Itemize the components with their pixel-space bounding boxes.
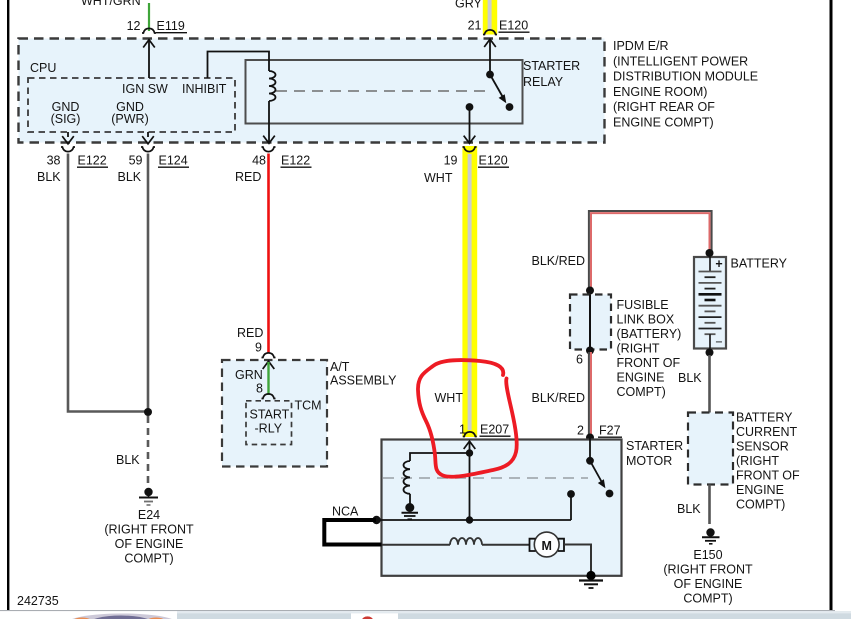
- svg-text:WHT: WHT: [435, 391, 464, 405]
- svg-text:INHIBIT: INHIBIT: [182, 82, 227, 96]
- connector cap E120 top: [483, 30, 497, 35]
- svg-text:GRN: GRN: [235, 368, 263, 382]
- svg-text:START: START: [250, 408, 290, 422]
- svg-text:DISTRIBUTION MODULE: DISTRIBUTION MODULE: [613, 70, 758, 84]
- junction dot fusible bottom: [586, 347, 594, 355]
- svg-text:TCM: TCM: [295, 399, 322, 413]
- svg-text:−: −: [715, 335, 722, 349]
- svg-text:IGN SW: IGN SW: [122, 82, 168, 96]
- ground E24: [144, 488, 152, 496]
- svg-text:ENGINE: ENGINE: [736, 483, 784, 497]
- junction dot: [466, 449, 473, 456]
- starter motor box: [382, 440, 622, 576]
- IPDM E/R box fill: [19, 39, 605, 143]
- wire WHT highlighted yellow pin19 to E207: [462, 146, 477, 437]
- svg-text:STARTER: STARTER: [523, 59, 580, 73]
- svg-text:M: M: [541, 539, 551, 553]
- blurred logo blob: [67, 614, 177, 619]
- NCA node dot: [372, 516, 380, 524]
- svg-text:BATTERY: BATTERY: [736, 411, 793, 425]
- wire relay coil to pin 48 arrow down: [268, 101, 270, 142]
- wire GRY highlighted yellow pin 21: [483, 0, 497, 35]
- connector cap pin48 E122 down: [262, 147, 276, 152]
- battery plates: [699, 257, 722, 349]
- wire BLK sensor to E150: [708, 485, 711, 525]
- red annotation loop: [418, 360, 517, 477]
- connector cap E207: [463, 432, 477, 437]
- junction dot battery bottom: [706, 349, 714, 357]
- wire INHIBIT to relay coil: [208, 52, 270, 79]
- TCM dashed box: [246, 401, 292, 445]
- wire to solenoid coil: [410, 453, 470, 461]
- svg-text:ASSEMBLY: ASSEMBLY: [330, 374, 397, 388]
- svg-text:SENSOR: SENSOR: [736, 440, 789, 454]
- NCA junction wire: [377, 519, 572, 521]
- svg-text:COMPT): COMPT): [617, 385, 666, 399]
- relay coil: [269, 71, 276, 101]
- relay internal mech dashed link: [276, 90, 487, 92]
- svg-text:NCA: NCA: [332, 505, 359, 519]
- junction dot F27: [586, 434, 594, 442]
- starter switch contact top: [586, 457, 594, 465]
- svg-text:E124: E124: [159, 154, 188, 168]
- starter switch output contact: [567, 490, 575, 498]
- svg-text:CURRENT: CURRENT: [736, 425, 797, 439]
- svg-text:(PWR): (PWR): [111, 112, 149, 126]
- junction dot fusible top: [586, 287, 594, 295]
- relay output contact: [466, 103, 474, 111]
- ground solenoid: [405, 503, 414, 512]
- svg-text:(INTELLIGENT POWER: (INTELLIGENT POWER: [613, 54, 748, 68]
- bottom sliver: thumbnails strip: [0, 611, 851, 619]
- IPDM E/R dashed border: [19, 39, 605, 143]
- A/T assembly box: [222, 360, 327, 467]
- wire pin 59 BLK: [142, 136, 154, 144]
- motor M: [534, 532, 559, 557]
- svg-text:COMPT): COMPT): [683, 592, 732, 606]
- relay switch blade with arrow: [490, 75, 503, 97]
- CPU dashed box: [28, 78, 235, 132]
- wire motor to ground: [564, 545, 591, 575]
- svg-text:OF ENGINE: OF ENGINE: [674, 577, 743, 591]
- wire IGN SW arrow up: [143, 40, 155, 48]
- svg-text:BLK: BLK: [116, 453, 140, 467]
- svg-text:ENGINE: ENGINE: [617, 371, 665, 385]
- svg-text:F27: F27: [599, 424, 621, 438]
- battery: [694, 257, 726, 349]
- connector cap E122 down: [61, 147, 75, 152]
- svg-text:12: 12: [127, 19, 141, 33]
- relay switch contact top: [486, 71, 494, 79]
- svg-text:CPU: CPU: [30, 61, 56, 75]
- bottom edge line of diagram canvas: [0, 610, 835, 611]
- svg-text:E150: E150: [693, 548, 722, 562]
- starter relay box: [246, 60, 523, 124]
- connector cap E124 down: [141, 147, 155, 152]
- svg-text:6: 6: [576, 353, 583, 367]
- junction dot battery top: [706, 249, 714, 257]
- svg-text:8: 8: [256, 382, 263, 396]
- svg-text:OF ENGINE: OF ENGINE: [115, 537, 184, 551]
- battery current sensor box: [688, 413, 733, 485]
- svg-text:(RIGHT: (RIGHT: [617, 342, 660, 356]
- wire BLK battery to sensor: [708, 355, 711, 413]
- wire pin1 arrow up into box: [464, 441, 476, 449]
- left page border: [7, 0, 9, 610]
- svg-text:FUSIBLE: FUSIBLE: [617, 298, 669, 312]
- fuse element wire: [589, 295, 591, 350]
- field coil inductor: [450, 538, 482, 545]
- connector cap pin19 E120 down: [463, 147, 477, 152]
- svg-text:9: 9: [255, 341, 262, 355]
- svg-text:+: +: [715, 257, 722, 271]
- wire to field coil: [382, 544, 451, 546]
- ground starter motor: [586, 571, 595, 580]
- wire BLK/RED battery top run: [589, 211, 712, 290]
- svg-text:BLK: BLK: [37, 170, 61, 184]
- svg-text:ENGINE ROOM): ENGINE ROOM): [613, 85, 707, 99]
- wire green pin 12: [148, 3, 150, 31]
- NCA thick stub: [324, 520, 381, 545]
- right page border: [830, 0, 833, 610]
- solenoid coil: [404, 461, 411, 494]
- svg-text:19: 19: [444, 154, 458, 168]
- wire BLK dashed to E24: [147, 416, 150, 488]
- svg-text:E122: E122: [78, 154, 107, 168]
- svg-text:48: 48: [252, 154, 266, 168]
- wire GRN with arrow up: [263, 361, 275, 369]
- svg-text:E207: E207: [480, 423, 509, 437]
- svg-text:BLK/RED: BLK/RED: [532, 391, 586, 405]
- svg-text:(RIGHT FRONT: (RIGHT FRONT: [104, 523, 194, 537]
- svg-text:BLK: BLK: [677, 502, 701, 516]
- svg-text:A/T: A/T: [330, 360, 350, 374]
- svg-text:RED: RED: [237, 326, 263, 340]
- svg-text:(SIG): (SIG): [51, 112, 81, 126]
- ground E150: [706, 528, 714, 536]
- svg-text:E122: E122: [281, 154, 310, 168]
- svg-text:BATTERY: BATTERY: [731, 257, 788, 271]
- svg-text:FRONT OF: FRONT OF: [736, 469, 800, 483]
- red dot icon: [362, 616, 373, 619]
- svg-text:59: 59: [129, 154, 143, 168]
- wire pin21 to relay contact, arrow up: [484, 39, 496, 47]
- svg-text:IPDM E/R: IPDM E/R: [613, 39, 669, 53]
- starter switch end contact: [606, 490, 614, 498]
- svg-text:38: 38: [47, 154, 61, 168]
- wire BLK/RED fusible to F27: [588, 352, 590, 437]
- starter switch wire from F27: [589, 438, 591, 461]
- connector cap pin 8: [262, 394, 276, 399]
- svg-text:(BATTERY): (BATTERY): [617, 327, 682, 341]
- wire relay to pin 19 arrow down: [469, 107, 471, 142]
- svg-text:E120: E120: [499, 19, 528, 33]
- svg-text:BLK: BLK: [118, 170, 142, 184]
- wire pin 38 BLK: [62, 136, 74, 144]
- svg-text:BLK: BLK: [678, 371, 702, 385]
- connector cap pin 9: [262, 353, 276, 358]
- svg-text:E120: E120: [479, 154, 508, 168]
- svg-text:COMPT): COMPT): [736, 498, 785, 512]
- svg-text:(RIGHT: (RIGHT: [736, 454, 779, 468]
- wire BLK pin38 down and across: [68, 154, 146, 412]
- svg-text:LINK BOX: LINK BOX: [617, 313, 675, 327]
- svg-text:STARTER: STARTER: [626, 439, 683, 453]
- wire RED pin48 down: [267, 154, 270, 353]
- junction dot on NCA line: [466, 516, 473, 523]
- svg-text:MOTOR: MOTOR: [626, 454, 672, 468]
- svg-text:ENGINE COMPT): ENGINE COMPT): [613, 116, 714, 130]
- fusible link box: [570, 295, 611, 350]
- svg-text:21: 21: [468, 19, 482, 33]
- svg-text:FRONT OF: FRONT OF: [617, 356, 681, 370]
- svg-text:(RIGHT FRONT: (RIGHT FRONT: [663, 563, 753, 577]
- starter switch blade: [590, 461, 602, 482]
- svg-text:(RIGHT REAR OF: (RIGHT REAR OF: [613, 100, 715, 114]
- svg-text:WHT/GRN: WHT/GRN: [81, 0, 141, 8]
- svg-text:COMPT): COMPT): [124, 552, 173, 566]
- svg-text:242735: 242735: [17, 594, 59, 608]
- svg-text:-RLY: -RLY: [255, 422, 283, 436]
- svg-text:RED: RED: [235, 170, 261, 184]
- relay switch fixed contact: [506, 103, 514, 111]
- svg-text:E24: E24: [138, 508, 160, 522]
- connector cap E119: [142, 28, 156, 33]
- svg-text:RELAY: RELAY: [523, 75, 564, 89]
- svg-text:2: 2: [577, 424, 584, 438]
- svg-text:E119: E119: [157, 19, 185, 33]
- svg-text:GRY: GRY: [455, 0, 483, 11]
- svg-text:BLK/RED: BLK/RED: [532, 254, 586, 268]
- junction ground node: [144, 408, 152, 416]
- svg-text:WHT: WHT: [424, 171, 453, 185]
- wire BLK pin59 down: [147, 154, 150, 413]
- starter internal mech dashed link: [383, 477, 588, 479]
